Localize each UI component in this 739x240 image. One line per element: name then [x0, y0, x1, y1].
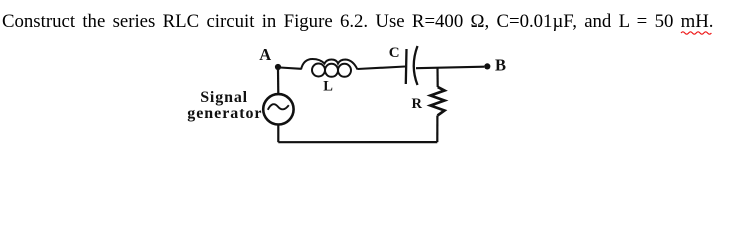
svg-text:Signal: Signal: [200, 89, 248, 106]
wire A down to generator: [277, 69, 279, 95]
svg-text:C: C: [389, 45, 400, 61]
wire bottom up to generator: [277, 124, 279, 142]
svg-text:R: R: [412, 96, 423, 112]
svg-text:A: A: [259, 45, 271, 64]
svg-text:B: B: [495, 55, 506, 74]
svg-text:L: L: [323, 79, 333, 95]
capacitor C1 right plate: [414, 46, 418, 85]
wire capacitor to node B: [416, 67, 484, 69]
spellcheck squiggle under mH: [681, 32, 711, 34]
wire inductor to capacitor: [358, 67, 406, 70]
node B: [484, 63, 490, 69]
svg-text:generator: generator: [187, 105, 262, 122]
bottom wire: [278, 141, 437, 143]
resistor R1: [431, 87, 445, 116]
wire A to inductor: [280, 68, 301, 69]
problem statement text: [2, 11, 714, 33]
capacitor C1 left plate: [405, 49, 408, 84]
sine symbol: [268, 104, 289, 110]
wire resistor to bottom: [436, 116, 438, 143]
node A: [275, 64, 281, 70]
wire junction down to resistor: [436, 68, 438, 88]
inductor L1: [301, 59, 358, 77]
signal generator source: [263, 94, 293, 124]
